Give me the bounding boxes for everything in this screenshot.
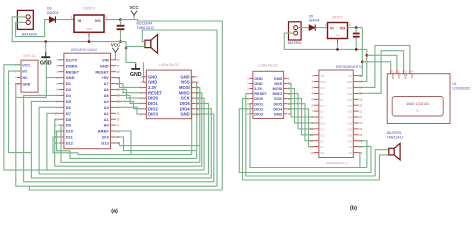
svg-text:GND: GND [100, 63, 109, 68]
svg-text:LoRa Ra-02: LoRa Ra-02 [159, 63, 178, 67]
wire buzzer+ net [142, 30, 217, 42]
wire riser lora pin5 [195, 98, 204, 170]
svg-text:DIO4: DIO4 [273, 107, 283, 111]
wire nano A4 to lora DIO2 [116, 101, 142, 108]
wire outer loop jog [29, 186, 222, 190]
wire riser to buzzer- (b) [379, 155, 388, 180]
junction cap bottom (b) [355, 48, 358, 51]
svg-text:D16: D16 [320, 106, 325, 108]
wire regulator gnd to rail (b) [337, 43, 339, 49]
wire diode cathode to regulator VI [56, 19, 74, 21]
wire riser to buzzer+ (b) [375, 150, 389, 176]
wire nano A7 to lora RESET [116, 84, 142, 93]
svg-text:GND: GND [86, 27, 92, 31]
svg-text:VCC: VCC [22, 63, 30, 67]
wire dht data down to bundle [9, 71, 32, 153]
wire lora SCK to esp32 [287, 99, 313, 135]
wire lora DIO2 loop [239, 109, 371, 173]
svg-text:GND: GND [180, 112, 189, 117]
svg-text:NSS: NSS [274, 82, 282, 86]
wire battery- gnd rail (b) [284, 33, 367, 49]
VCC supply symbol (a) nano [111, 42, 121, 52]
svg-text:DIO0: DIO0 [254, 97, 263, 101]
svg-text:VCC: VCC [397, 74, 401, 80]
svg-text:MOSI: MOSI [272, 87, 282, 91]
wire lora RESET loop [246, 94, 375, 176]
svg-text:RESET: RESET [254, 92, 267, 96]
svg-text:VCC: VCC [111, 42, 121, 47]
junction gnd/lcd feed [366, 54, 369, 57]
wire battery- to ground rail [12, 17, 46, 42]
wire lora DIO1 loop [250, 104, 367, 168]
svg-text:D7: D7 [66, 111, 72, 116]
wire esp32 sda bracket to lcd pin4 [359, 46, 410, 88]
wire nano D8 loop [55, 119, 202, 166]
svg-text:7805TV: 7805TV [332, 16, 344, 20]
wire riser lora pin7 [195, 109, 211, 178]
svg-text:GND: GND [148, 74, 157, 79]
svg-text:LCD1602I2C: LCD1602I2C [452, 86, 471, 90]
wire riser lora pin1 [192, 77, 196, 155]
svg-text:VCC: VCC [129, 5, 139, 10]
wire nano 3V3 under lora [116, 137, 197, 151]
wire dht vcc down to bundle [4, 65, 204, 170]
sensor DHT-11 [15, 54, 38, 92]
svg-text:D34: D34 [348, 141, 353, 143]
junction VO/cap [119, 18, 122, 21]
svg-text:D3: D3 [66, 87, 72, 92]
junction cap/gnd rail [119, 40, 122, 43]
wire riser buzzer net [216, 30, 218, 186]
svg-text:D13: D13 [348, 88, 353, 90]
svg-text:A5: A5 [104, 93, 110, 98]
svg-text:LoRa Ra-02: LoRa Ra-02 [259, 64, 278, 68]
wire buzzer- to junction [126, 46, 145, 48]
svg-text:D19: D19 [320, 129, 325, 131]
svg-text:D35: D35 [348, 135, 353, 137]
svg-text:1N4004: 1N4004 [46, 11, 58, 15]
wire ground rail (a) [46, 42, 126, 48]
wire nano +5V to lora 3.3V [116, 78, 142, 88]
svg-text:VIN: VIN [102, 57, 109, 62]
VCC supply symbol (a) top [129, 5, 139, 15]
svg-text:3V3: 3V3 [320, 76, 325, 78]
wire lora MOSI to esp32 [287, 89, 313, 123]
svg-text:GND: GND [148, 80, 157, 85]
svg-text:1N4004: 1N4004 [308, 18, 319, 22]
svg-text:D12: D12 [66, 141, 74, 146]
wire nano D11 loop [53, 137, 192, 155]
svg-text:D0/RX: D0/RX [66, 63, 78, 68]
wire lora NSS to esp32 [287, 84, 313, 118]
buzzer BUZZER1 speaker symbol [389, 143, 400, 160]
wire nano D7 down [47, 113, 59, 170]
wire dht gnd continuation to bundle [16, 97, 217, 186]
svg-text:A3: A3 [104, 105, 110, 110]
wire nano AREF down to bundle [116, 131, 131, 155]
svg-text:D33: D33 [348, 124, 353, 126]
junction cap top (b) [355, 26, 358, 29]
svg-text:SCK: SCK [181, 96, 190, 101]
svg-text:BUZZER4: BUZZER4 [137, 22, 153, 26]
svg-text:D32: D32 [348, 129, 353, 131]
svg-text:D27: D27 [348, 106, 353, 108]
svg-text:D5: D5 [66, 99, 72, 104]
wire gnd down to esp32 gnd [359, 49, 367, 81]
svg-text:VI: VI [78, 18, 82, 23]
battery connector BATERAI (a) [17, 10, 33, 29]
junction vcc/lcd feed [361, 61, 364, 64]
svg-text:MISO: MISO [272, 92, 282, 96]
junction buzzer return [125, 47, 128, 50]
voltage regulator IC 7805TV (b) [328, 23, 348, 39]
wire riser lora pin8 [195, 114, 214, 182]
svg-text:D6: D6 [47, 6, 52, 10]
buzzer BUZZER4 speaker symbol [145, 35, 158, 54]
battery connector BATERAI (b) [289, 22, 302, 40]
svg-text:TMB12A12: TMB12A12 [387, 136, 404, 140]
svg-text:VP: VP [349, 153, 353, 155]
arduino nano U2 [55, 53, 120, 149]
svg-text:D18: D18 [320, 124, 325, 126]
svg-text:D9: D9 [66, 123, 72, 128]
svg-text:VO: VO [95, 18, 101, 23]
wire diode to VI (b) [316, 27, 328, 29]
svg-text:VI: VI [330, 26, 334, 30]
wire nano D4 loop [24, 95, 214, 181]
wire regulator gnd to rail [88, 37, 90, 42]
svg-text:VIN: VIN [348, 76, 352, 78]
svg-text:GND: GND [66, 75, 75, 80]
svg-text:D17: D17 [320, 112, 325, 114]
diode D6 1N4004 [49, 16, 55, 22]
svg-text:D4: D4 [66, 93, 72, 98]
svg-text:RESET: RESET [148, 90, 162, 95]
svg-text:GND: GND [180, 74, 189, 79]
svg-text:D26: D26 [348, 112, 353, 114]
voltage regulator IC 7805TV (a) [74, 15, 104, 32]
wire riser lora pin4 [195, 93, 202, 167]
svg-text:3.3V: 3.3V [254, 87, 262, 91]
svg-text:RESET: RESET [66, 69, 80, 74]
LCD module 16x2 LCD i2c [387, 74, 450, 124]
diode D5 1N4004 (b) [309, 25, 315, 31]
wire esp32 last pin down [359, 153, 360, 168]
svg-text:GND: GND [347, 82, 352, 84]
wire vcc down to esp32 vin [359, 28, 363, 76]
capacitor C2 (b) [353, 28, 360, 50]
svg-text:VO: VO [340, 26, 346, 30]
svg-text:DIO2: DIO2 [254, 107, 263, 111]
wire nano D6 loop [39, 107, 208, 174]
svg-text:DIO3: DIO3 [254, 112, 263, 116]
ground symbol (a) lora [130, 64, 142, 78]
wire nano D5 loop [31, 101, 211, 177]
svg-text:ESP32DEVKITV1: ESP32DEVKITV1 [336, 65, 363, 69]
svg-text:D21: D21 [320, 135, 325, 137]
wire riser lora pin2 [195, 82, 196, 158]
junction regulator gnd [88, 40, 91, 43]
svg-text:DIO5: DIO5 [273, 102, 282, 106]
LCD pin stubs [391, 70, 414, 80]
wire lora gnd pin2 [142, 81, 143, 83]
svg-text:(a): (a) [111, 209, 118, 215]
wire nano A3 to lora DIO3 [116, 107, 142, 114]
wire VO to cap junction [104, 19, 121, 21]
svg-text:(b): (b) [350, 206, 357, 212]
svg-text:DIO5: DIO5 [180, 101, 190, 106]
svg-text:A0: A0 [104, 123, 110, 128]
svg-text:AREF: AREF [98, 129, 109, 134]
svg-text:BATERAI: BATERAI [288, 41, 302, 45]
svg-text:D14: D14 [348, 100, 353, 102]
wire riser lora pin6 [195, 103, 208, 174]
wire to VCC symbol [121, 15, 135, 19]
svg-text:D10: D10 [66, 129, 74, 134]
wire esp32 scl bracket to lcd pin3 [359, 51, 404, 94]
wire nano D9 loop [58, 125, 199, 162]
svg-text:7805TV: 7805TV [83, 6, 96, 10]
wire VO net (b) [348, 27, 363, 29]
wire riser to esp32 pin (b)1 [359, 141, 367, 168]
svg-text:GND: GND [254, 77, 263, 81]
svg-text:16x2 LCD i2c: 16x2 LCD i2c [406, 102, 429, 106]
capacitor C1 (a) [117, 20, 125, 42]
esp32 devkit U3 [310, 70, 363, 158]
wire lora DIO5 to esp32 [287, 104, 313, 141]
svg-text:DIO2: DIO2 [148, 106, 158, 111]
svg-text:GND: GND [274, 77, 283, 81]
svg-text:BUZZER1: BUZZER1 [387, 131, 402, 135]
svg-text:BATERAI: BATERAI [22, 32, 37, 36]
svg-text:D6: D6 [66, 105, 72, 110]
wire to lcd pin2 [367, 55, 397, 73]
svg-text:GND: GND [22, 83, 30, 87]
wire battery+ to diode (b) [298, 27, 309, 29]
svg-text:DIO3: DIO3 [148, 112, 158, 117]
wire vcc to nano VIN [115, 53, 118, 60]
svg-text:D11: D11 [66, 135, 74, 140]
svg-text:SDA: SDA [404, 74, 408, 80]
svg-text:RESET: RESET [95, 69, 109, 74]
svg-text:VN: VN [349, 147, 353, 149]
wire lora DIO4 to esp32 [287, 109, 313, 147]
wire riser lora pin3 [195, 87, 200, 162]
lora module Ra-02 (b) [247, 64, 291, 119]
svg-text:GND: GND [254, 82, 263, 86]
svg-text:D2: D2 [66, 81, 72, 86]
svg-text:DIO4: DIO4 [180, 106, 190, 111]
svg-text:D25: D25 [348, 118, 353, 120]
wire riser vcc net [221, 21, 223, 190]
wire VCC net to right bundle [134, 20, 222, 21]
junction regulator gnd (b) [336, 48, 339, 51]
svg-text:A7: A7 [104, 81, 110, 86]
svg-text:GND: GND [320, 82, 325, 84]
svg-text:MISO: MISO [179, 90, 190, 95]
wire battery+ to diode anode [16, 20, 50, 37]
stub lora DIO1 [249, 103, 250, 105]
svg-text:DHT-11: DHT-11 [23, 54, 35, 58]
svg-text:A6: A6 [104, 87, 110, 92]
svg-text:D12: D12 [348, 94, 353, 96]
svg-text:NC: NC [22, 76, 28, 80]
svg-text:D22: D22 [320, 153, 325, 155]
svg-text:DIO1: DIO1 [148, 101, 158, 106]
svg-text:GND: GND [335, 35, 340, 37]
wire lora DIO0 loop [243, 99, 380, 180]
svg-text:SCK: SCK [274, 97, 282, 101]
wire lora gnd pins tie [143, 62, 145, 82]
lora module Ra-02 (a) [140, 63, 199, 119]
svg-text:GND: GND [274, 112, 283, 116]
wire dht gnd loop [16, 58, 47, 97]
svg-text:MOSI: MOSI [179, 85, 190, 90]
svg-text:I/O: I/O [22, 70, 27, 74]
svg-text:ARDUINO NANO: ARDUINO NANO [71, 48, 98, 52]
svg-text:DIO0: DIO0 [148, 96, 158, 101]
svg-text:D1/TX: D1/TX [66, 57, 78, 62]
junction battery-/gnd [45, 40, 48, 43]
wire lora MISO to esp32 [287, 94, 313, 129]
wire nano A6 to lora DIO0 [116, 90, 142, 99]
svg-text:3V3: 3V3 [102, 135, 110, 140]
svg-text:GND: GND [391, 74, 395, 80]
wire nano gnd to ground net [46, 77, 58, 79]
svg-text:U1: U1 [452, 82, 456, 86]
wire nano A5 to lora DIO1 [116, 95, 142, 103]
wire down to lora ground symbol [126, 48, 136, 64]
pin 2 stub regulator ground (b) [337, 39, 339, 44]
svg-text:D15: D15 [320, 88, 325, 90]
pin 2 stub regulator ground [88, 32, 90, 37]
svg-text:D13: D13 [101, 141, 109, 146]
svg-text:3.3V: 3.3V [148, 85, 157, 90]
wire lora gnd pin1 [142, 76, 143, 78]
svg-text:D8: D8 [66, 117, 72, 122]
svg-text:DIO1: DIO1 [254, 102, 263, 106]
svg-text:A1: A1 [104, 117, 110, 122]
svg-text:NSS: NSS [181, 80, 190, 85]
wire to lcd pin1 [362, 62, 390, 73]
svg-text:A4: A4 [104, 99, 110, 104]
svg-text:A2: A2 [104, 111, 110, 116]
svg-text:SCL: SCL [410, 74, 414, 80]
wire riser to esp32 pin (b)2 [359, 147, 371, 173]
svg-text:ESP32DEVKIT V1: ESP32DEVKIT V1 [327, 161, 349, 165]
wire nano D13 under lora [116, 143, 200, 146]
ground symbol (a) left [40, 52, 52, 66]
svg-text:+5V: +5V [101, 75, 109, 80]
wire nano D10 loop [57, 131, 197, 158]
